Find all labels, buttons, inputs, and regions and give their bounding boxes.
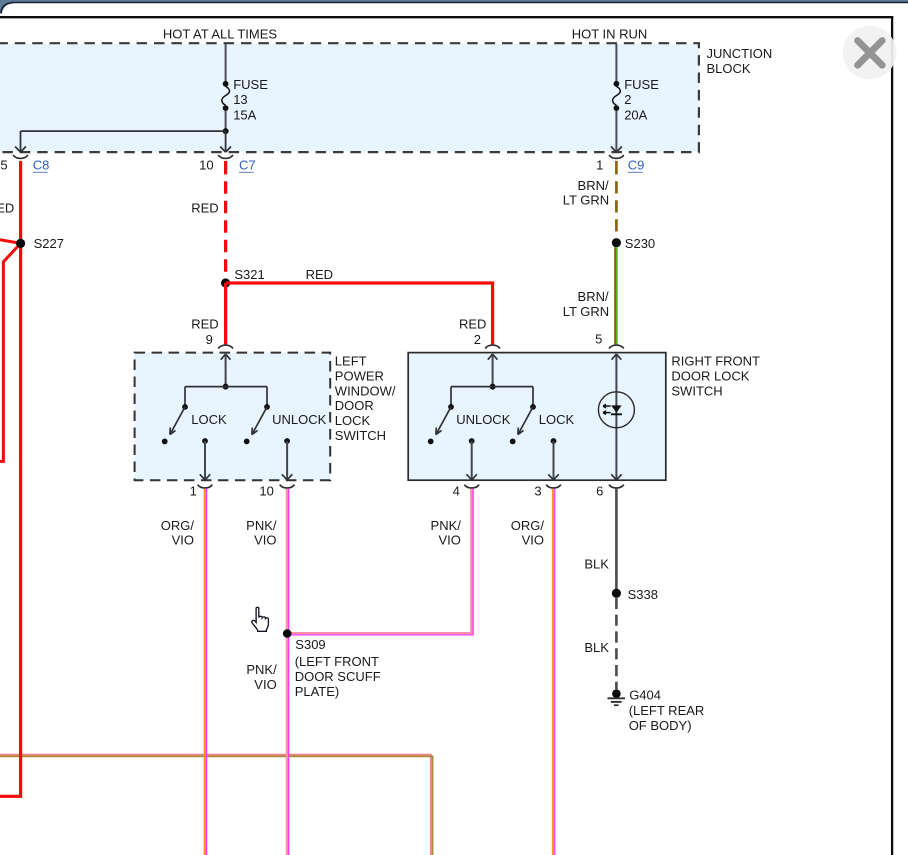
connector C8 pin 5 label xyxy=(0,157,7,172)
wire label BLK upper xyxy=(584,557,609,572)
wire pin 4 exit with down-arrow xyxy=(467,438,477,480)
wire label RED (C8 run, clipped at left edge) xyxy=(0,201,14,216)
wire through lamp pin 5 to pin 6 with arrows xyxy=(611,354,621,480)
diagram frame right border xyxy=(891,16,893,855)
wire pin 1 exit with down-arrow xyxy=(200,438,210,480)
svg-text:VIO: VIO xyxy=(522,533,544,548)
connector socket at pin 1 xyxy=(198,485,213,488)
splice S338 xyxy=(612,587,658,602)
right front door lock switch box solid border xyxy=(408,353,666,481)
svg-text:RED: RED xyxy=(191,316,218,331)
svg-text:LOCK: LOCK xyxy=(539,412,575,427)
UNLOCK text right box xyxy=(456,412,511,427)
left power window/door lock switch box dashed border xyxy=(135,353,331,481)
svg-text:LT GRN: LT GRN xyxy=(563,193,609,208)
wire BRN stub below C9 xyxy=(615,161,618,175)
connector socket at pin 10 xyxy=(280,485,295,488)
svg-text:LOCK: LOCK xyxy=(191,412,227,427)
connector socket at pin 6 xyxy=(609,485,624,488)
svg-text:FUSE: FUSE xyxy=(233,77,268,92)
svg-text:BRN/: BRN/ xyxy=(578,289,609,304)
svg-text:10: 10 xyxy=(199,157,213,172)
svg-text:4: 4 xyxy=(453,483,460,498)
connector C7 pin 10 label xyxy=(199,157,213,172)
left power window/door lock switch box fill xyxy=(135,353,331,481)
pin 4 number label xyxy=(453,483,460,498)
svg-text:JUNCTION: JUNCTION xyxy=(707,46,773,61)
wire BLK from pin 6 xyxy=(615,489,618,593)
svg-text:C9: C9 xyxy=(628,158,645,173)
switch arm LOCK in left box xyxy=(162,387,188,445)
pin 9 number label xyxy=(206,332,213,347)
right front door lock switch box fill xyxy=(408,353,666,481)
connector C7 socket symbol xyxy=(218,155,233,158)
svg-text:RED: RED xyxy=(306,267,333,282)
svg-text:VIO: VIO xyxy=(438,533,460,548)
wire drop to connector C8 with arrow xyxy=(15,131,26,152)
wire label RED (C7 drop) xyxy=(191,201,218,216)
connector socket at pin 3 xyxy=(546,485,561,488)
mouse hand cursor xyxy=(252,607,269,631)
switch arm UNLOCK in left box xyxy=(244,387,270,445)
svg-text:RED: RED xyxy=(459,316,486,331)
connector C9 socket symbol xyxy=(609,155,624,158)
svg-text:5: 5 xyxy=(595,331,602,346)
pin 6 number label xyxy=(596,483,603,498)
wire RED from S321 right and down to pin 2 xyxy=(226,283,493,344)
window top-left corner wedge xyxy=(0,0,15,13)
wire fuse 2 to connector C9 with arrow xyxy=(611,111,622,153)
connector socket at pin 4 xyxy=(464,485,479,488)
wire label RED (horizontal run) xyxy=(306,267,333,282)
svg-text:LEFT: LEFT xyxy=(335,354,367,369)
wire splice branch from S227 down left edge xyxy=(0,243,21,461)
svg-text:S309: S309 xyxy=(295,637,325,652)
connector socket at pin 5 entry xyxy=(609,345,624,348)
connector C9 pin 1 label xyxy=(596,157,603,172)
svg-text:S230: S230 xyxy=(625,236,655,251)
wire RED dashed C7 to S321 xyxy=(224,181,227,276)
wire fuse 13 to junction node xyxy=(225,111,227,132)
svg-text:ORG/: ORG/ xyxy=(511,518,545,533)
svg-text:10: 10 xyxy=(259,483,273,498)
wire horizontal in right box xyxy=(451,386,533,388)
svg-text:DOOR: DOOR xyxy=(335,398,374,413)
LED indicator lamp in right box xyxy=(598,392,634,428)
svg-text:VIO: VIO xyxy=(254,677,276,692)
wire label PNK/VIO pin 10 xyxy=(246,518,277,548)
node junction dot in right box xyxy=(490,384,496,390)
wire pin 3 exit with down-arrow xyxy=(548,438,558,480)
wire drop to connector C7 with arrow xyxy=(220,131,231,152)
wire PNK/VIO from pin 10 through S309 (violet stripe) xyxy=(288,489,290,855)
svg-text:(LEFT REAR: (LEFT REAR xyxy=(629,703,705,718)
wire label BRN/LT GRN lower xyxy=(563,289,609,319)
svg-text:2: 2 xyxy=(474,332,481,347)
pin 10 number label xyxy=(259,483,273,498)
svg-text:G404: G404 xyxy=(629,688,661,703)
svg-text:DOOR SCUFF: DOOR SCUFF xyxy=(295,669,381,684)
wire RED from C8 long vertical run exiting left xyxy=(0,161,21,796)
pin 3 number label xyxy=(534,483,541,498)
svg-text:2: 2 xyxy=(624,92,631,107)
wire PNK/VIO from pin 4 to S309 (violet stripe) xyxy=(287,489,473,635)
svg-text:ORG/: ORG/ xyxy=(161,518,195,533)
svg-text:PNK/: PNK/ xyxy=(246,518,277,533)
wire label BRN/LT GRN upper xyxy=(563,178,609,208)
splice S321 xyxy=(221,267,265,288)
svg-text:C7: C7 xyxy=(239,158,256,173)
connector C9 link label xyxy=(628,158,645,173)
wire label PNK/VIO below S309 xyxy=(246,662,277,692)
svg-text:VIO: VIO xyxy=(254,533,276,548)
svg-text:S321: S321 xyxy=(234,267,264,282)
svg-text:1: 1 xyxy=(190,483,197,498)
switch arm UNLOCK in right box xyxy=(428,387,454,445)
splice S230 xyxy=(612,236,655,251)
wire BLK dashed S338 to G404 xyxy=(615,598,618,690)
wire PNK/VIO from pin 4 to S309 (pink stripe) xyxy=(287,489,471,633)
svg-text:BRN/: BRN/ xyxy=(578,178,609,193)
left switch box name label xyxy=(335,354,396,444)
connector C8 link label xyxy=(33,158,50,173)
svg-text:RIGHT FRONT: RIGHT FRONT xyxy=(671,354,760,369)
wire PNK/VIO from pin 10 through S309 (pink stripe) xyxy=(286,489,288,855)
node junction dot in left box xyxy=(223,384,229,390)
wire RED stub below C7 xyxy=(224,161,227,175)
diagram frame top border xyxy=(0,16,893,18)
LOCK text right box xyxy=(539,412,575,427)
wire BRN/LT GRN two-color solid to pin 5 (brown stripe) xyxy=(614,247,616,344)
svg-text:(LEFT FRONT: (LEFT FRONT xyxy=(295,654,379,669)
junction block name label xyxy=(707,46,773,76)
LOCK text left box xyxy=(191,412,227,427)
dialog rounded corner border xyxy=(1,3,13,14)
wire label ORG/VIO pin 3 xyxy=(511,518,545,548)
svg-text:S338: S338 xyxy=(628,587,658,602)
wire splice branch from S227 exiting left upper xyxy=(0,240,21,244)
net label HOT IN RUN xyxy=(572,26,648,41)
svg-text:RED: RED xyxy=(191,201,218,216)
fuse 2 xyxy=(613,77,660,123)
svg-text:PNK/: PNK/ xyxy=(246,662,277,677)
svg-text:LOCK: LOCK xyxy=(335,413,371,428)
svg-text:POWER: POWER xyxy=(335,368,384,383)
svg-text:DOOR LOCK: DOOR LOCK xyxy=(671,368,749,383)
dialog top border xyxy=(12,2,908,4)
wire label BLK lower xyxy=(584,640,609,655)
svg-text:3: 3 xyxy=(534,483,541,498)
pin 2 number label xyxy=(474,332,481,347)
wire label PNK/VIO pin 4 xyxy=(431,518,462,548)
svg-text:S227: S227 xyxy=(34,236,64,251)
wire pin 2 entry up-arrow into right box xyxy=(488,354,498,387)
wire label RED (pin 9 drop) xyxy=(191,316,218,331)
svg-text:1: 1 xyxy=(596,157,603,172)
wire ORG/VIO from pin 3 (orange stripe) xyxy=(552,489,554,855)
net label HOT AT ALL TIMES xyxy=(163,26,277,41)
wire label RED (pin 2 drop) xyxy=(459,316,486,331)
svg-text:13: 13 xyxy=(233,92,247,107)
svg-text:LT GRN: LT GRN xyxy=(563,304,609,319)
svg-text:OF BODY): OF BODY) xyxy=(629,718,692,733)
switch arm LOCK in right box xyxy=(510,387,536,445)
ground G404 label xyxy=(629,688,705,733)
wire ORG/VIO from pin 1 (orange stripe) xyxy=(204,489,206,855)
connector socket at pin 9 entry xyxy=(218,345,233,348)
node junction dot below fuse 13 xyxy=(223,128,229,134)
svg-text:SWITCH: SWITCH xyxy=(671,383,722,398)
svg-text:9: 9 xyxy=(206,332,213,347)
svg-text:C8: C8 xyxy=(33,158,50,173)
ground G404 xyxy=(608,689,626,705)
junction block dashed border xyxy=(0,43,699,152)
svg-text:15A: 15A xyxy=(233,108,256,123)
wire from HOT AT ALL TIMES into fuse 13 xyxy=(225,44,227,81)
wire horizontal in left box xyxy=(185,386,267,388)
wire two-color bus horizontal at bottom (olive stripe) xyxy=(0,756,433,855)
connector C8 socket symbol xyxy=(13,155,28,158)
right switch box name label xyxy=(671,354,760,399)
wire from HOT IN RUN into fuse 2 xyxy=(615,44,617,81)
connector socket at pin 2 entry xyxy=(485,345,500,348)
wire label ORG/VIO pin 1 xyxy=(161,518,195,548)
svg-text:PLATE): PLATE) xyxy=(295,684,340,699)
wire RED from S321 down to pin 9 xyxy=(224,283,227,344)
svg-text:VIO: VIO xyxy=(172,533,194,548)
pin 5 number label xyxy=(595,331,602,346)
wire two-color bus horizontal at bottom (salmon stripe) xyxy=(0,755,431,855)
fuse 13 xyxy=(222,77,268,123)
svg-text:FUSE: FUSE xyxy=(624,77,659,92)
svg-text:HOT AT ALL TIMES: HOT AT ALL TIMES xyxy=(163,26,277,41)
junction block fill xyxy=(0,44,699,152)
svg-text:BLK: BLK xyxy=(584,557,609,572)
wire horizontal to C8 drop xyxy=(21,130,226,132)
splice S309 xyxy=(283,629,292,638)
svg-text:BLOCK: BLOCK xyxy=(707,61,751,76)
svg-text:6: 6 xyxy=(596,483,603,498)
svg-text:WINDOW/: WINDOW/ xyxy=(335,383,396,398)
splice S309 label xyxy=(295,637,381,699)
svg-text:20A: 20A xyxy=(624,108,647,123)
wire BRN/LT GRN dashed C9 to S230 xyxy=(615,181,618,237)
svg-text:SWITCH: SWITCH xyxy=(335,428,386,443)
svg-text:5: 5 xyxy=(0,157,7,172)
wire BRN/LT GRN two-color solid to pin 5 (green stripe) xyxy=(616,247,618,344)
svg-text:UNLOCK: UNLOCK xyxy=(272,412,327,427)
wire ORG/VIO from pin 1 (violet stripe) xyxy=(206,489,208,855)
svg-text:BLK: BLK xyxy=(584,640,609,655)
svg-text:PNK/: PNK/ xyxy=(431,518,462,533)
close button xyxy=(843,26,897,80)
svg-text:RED: RED xyxy=(0,201,14,216)
wire pin 9 entry up-arrow into left box xyxy=(221,354,231,387)
connector C7 link label xyxy=(239,158,256,173)
svg-text:UNLOCK: UNLOCK xyxy=(456,412,511,427)
svg-text:HOT IN RUN: HOT IN RUN xyxy=(572,26,648,41)
wire pin 10 exit with down-arrow xyxy=(282,438,292,480)
pin 1 number label xyxy=(190,483,197,498)
wire ORG/VIO from pin 3 (violet stripe) xyxy=(554,489,556,855)
UNLOCK text left box xyxy=(272,412,327,427)
splice S227 xyxy=(16,236,64,251)
window top bar xyxy=(0,0,908,2)
